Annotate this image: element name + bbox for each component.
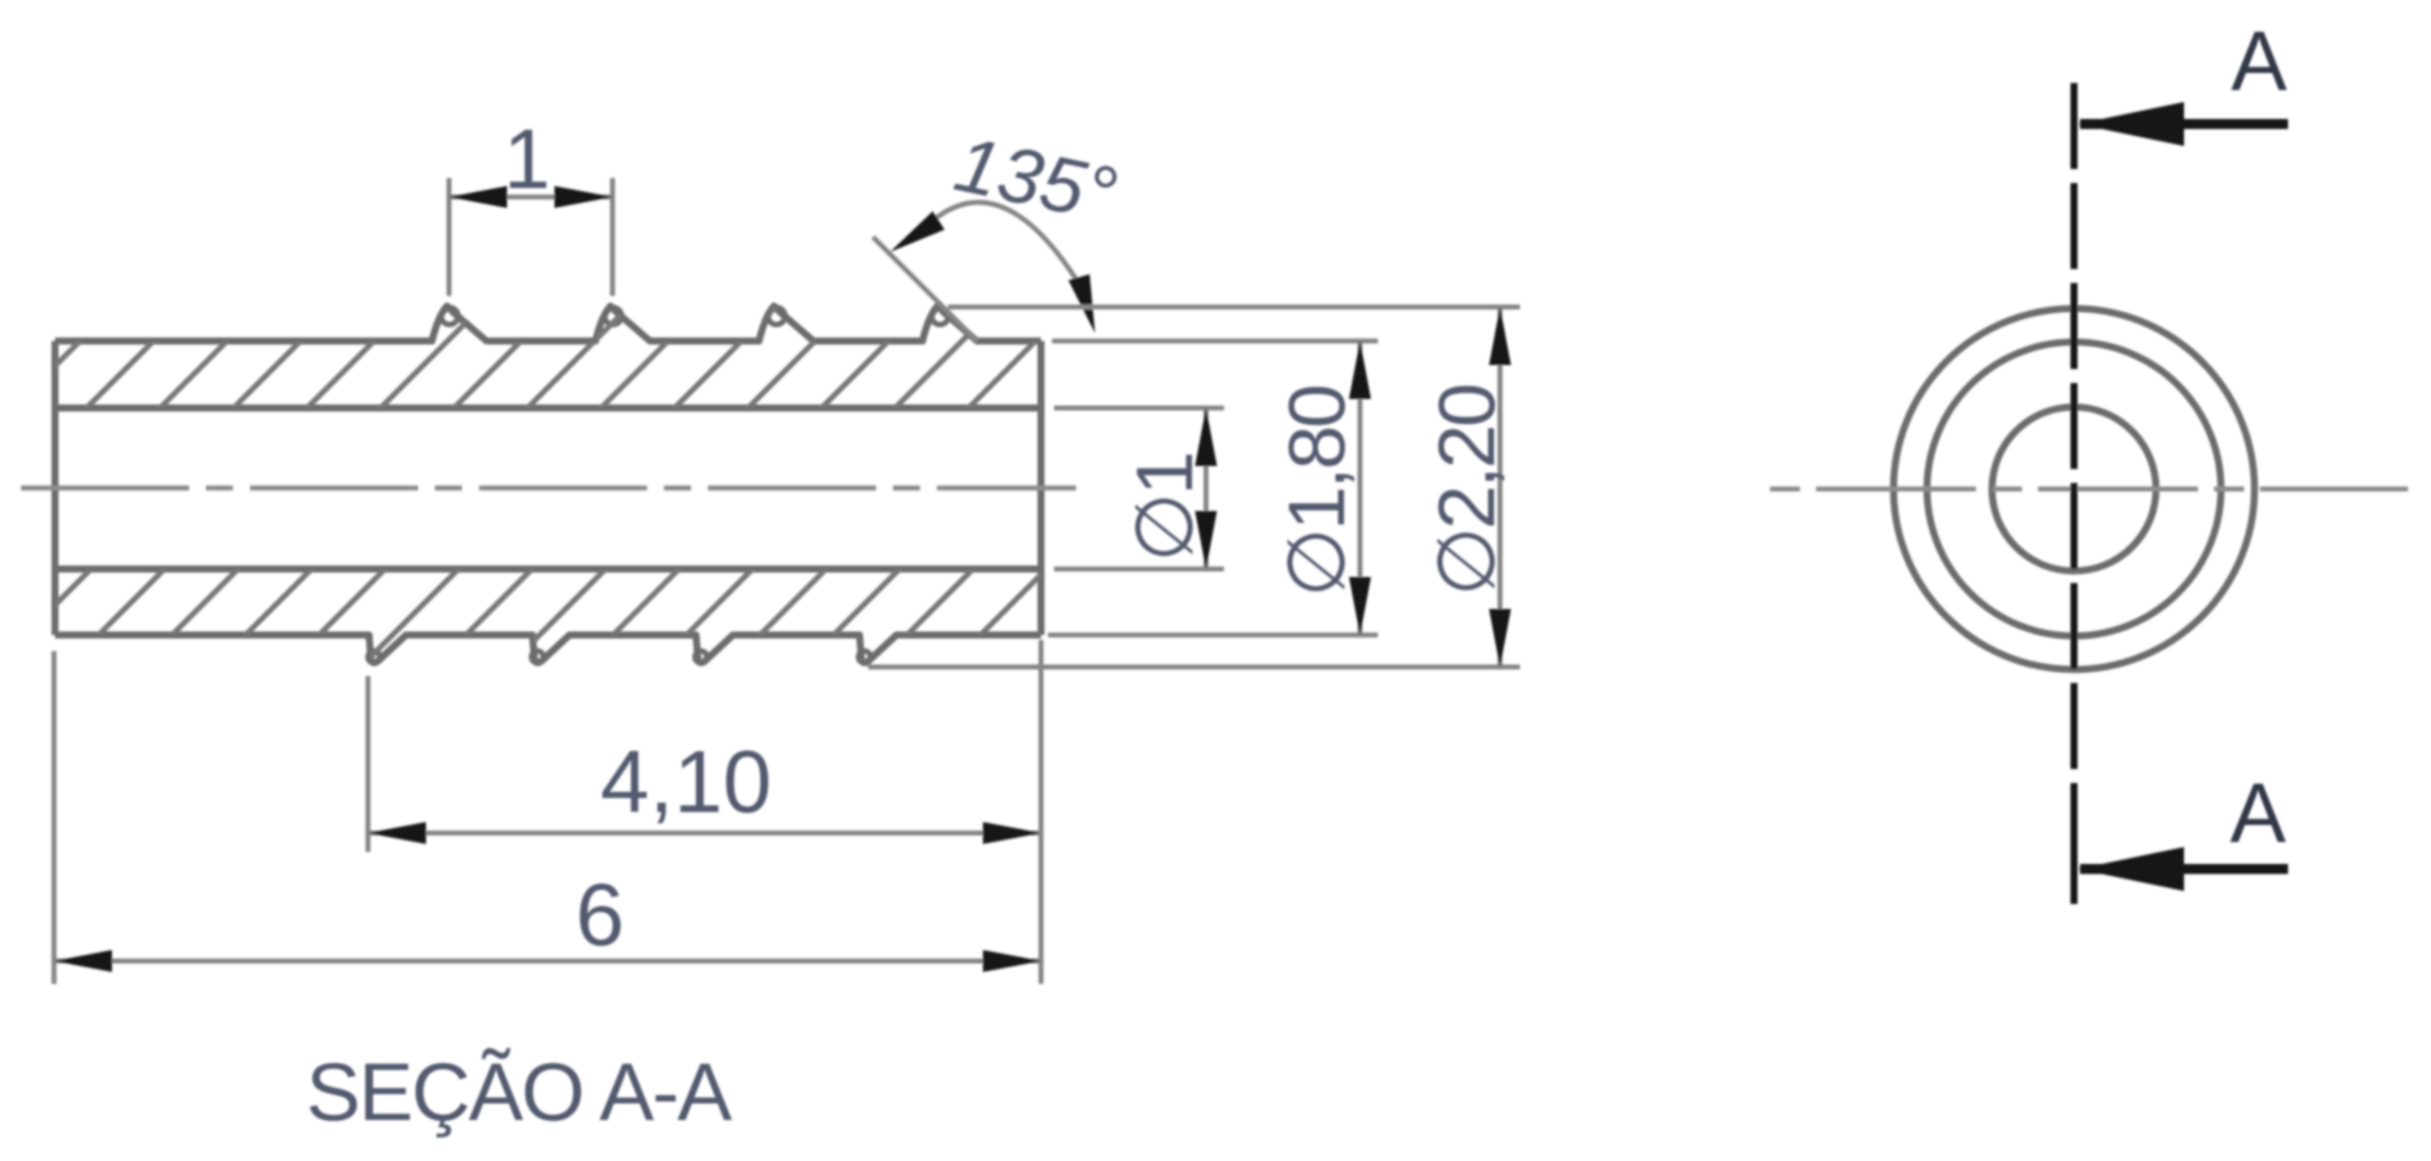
dim 6: dimension line — [54, 959, 1041, 964]
svg-text:SEÇÃO A-A: SEÇÃO A-A — [306, 1047, 732, 1138]
barb curl details top — [441, 308, 458, 325]
cross-section hatching — [0, 280, 1170, 720]
end view: horizontal centerline — [1770, 487, 2408, 492]
dim 1: extension lines — [447, 178, 452, 296]
bore bottom line — [55, 566, 1041, 573]
dim 135: barb flank extension line — [873, 237, 977, 341]
centerline left view — [21, 486, 1076, 491]
section arrow bottom — [2080, 864, 2288, 874]
dim dia1.80: extension lines — [1052, 339, 1378, 344]
dim dia1.80: dimension line — [1358, 341, 1363, 635]
dim 6: extension line left — [52, 651, 57, 984]
dim dia2.20: extension lines — [948, 305, 1520, 310]
section cutting line A-A — [2071, 83, 2078, 904]
svg-text:1: 1 — [504, 112, 551, 206]
right end face — [1038, 341, 1045, 635]
barb curl details bottom — [368, 651, 380, 663]
section arrow top — [2080, 119, 2288, 129]
svg-text:A: A — [2231, 14, 2287, 108]
dim 135: arc — [931, 202, 1090, 302]
dim 4.10: extension line left — [366, 676, 371, 852]
bore top line — [55, 405, 1041, 412]
svg-text:4,10: 4,10 — [600, 732, 771, 831]
dim 4.10: dimension line — [368, 831, 1041, 836]
dim dia2.20: dimension line — [1498, 307, 1503, 667]
end view: bore circle — [1992, 407, 2156, 571]
svg-text:∅1: ∅1 — [1120, 454, 1209, 562]
end view: body circle — [1927, 342, 2221, 636]
section cutting line solid end segment — [2071, 852, 2078, 904]
svg-text:A: A — [2230, 766, 2286, 860]
svg-text:6: 6 — [576, 865, 625, 964]
dim dia1: extension lines — [1054, 406, 1224, 411]
svg-text:135°: 135° — [948, 119, 1124, 239]
dim 1: dimension line — [449, 195, 613, 200]
dim dia1: dimension line — [1204, 408, 1209, 569]
svg-text:∅1,80: ∅1,80 — [1272, 386, 1361, 597]
dim 6: extension line right (shared) — [1039, 640, 1044, 984]
end view: outer barb circle — [1894, 309, 2255, 670]
left end face — [52, 341, 59, 635]
section view outline: barbed tube body — [55, 306, 1041, 341]
svg-text:∅2,20: ∅2,20 — [1422, 385, 1511, 596]
